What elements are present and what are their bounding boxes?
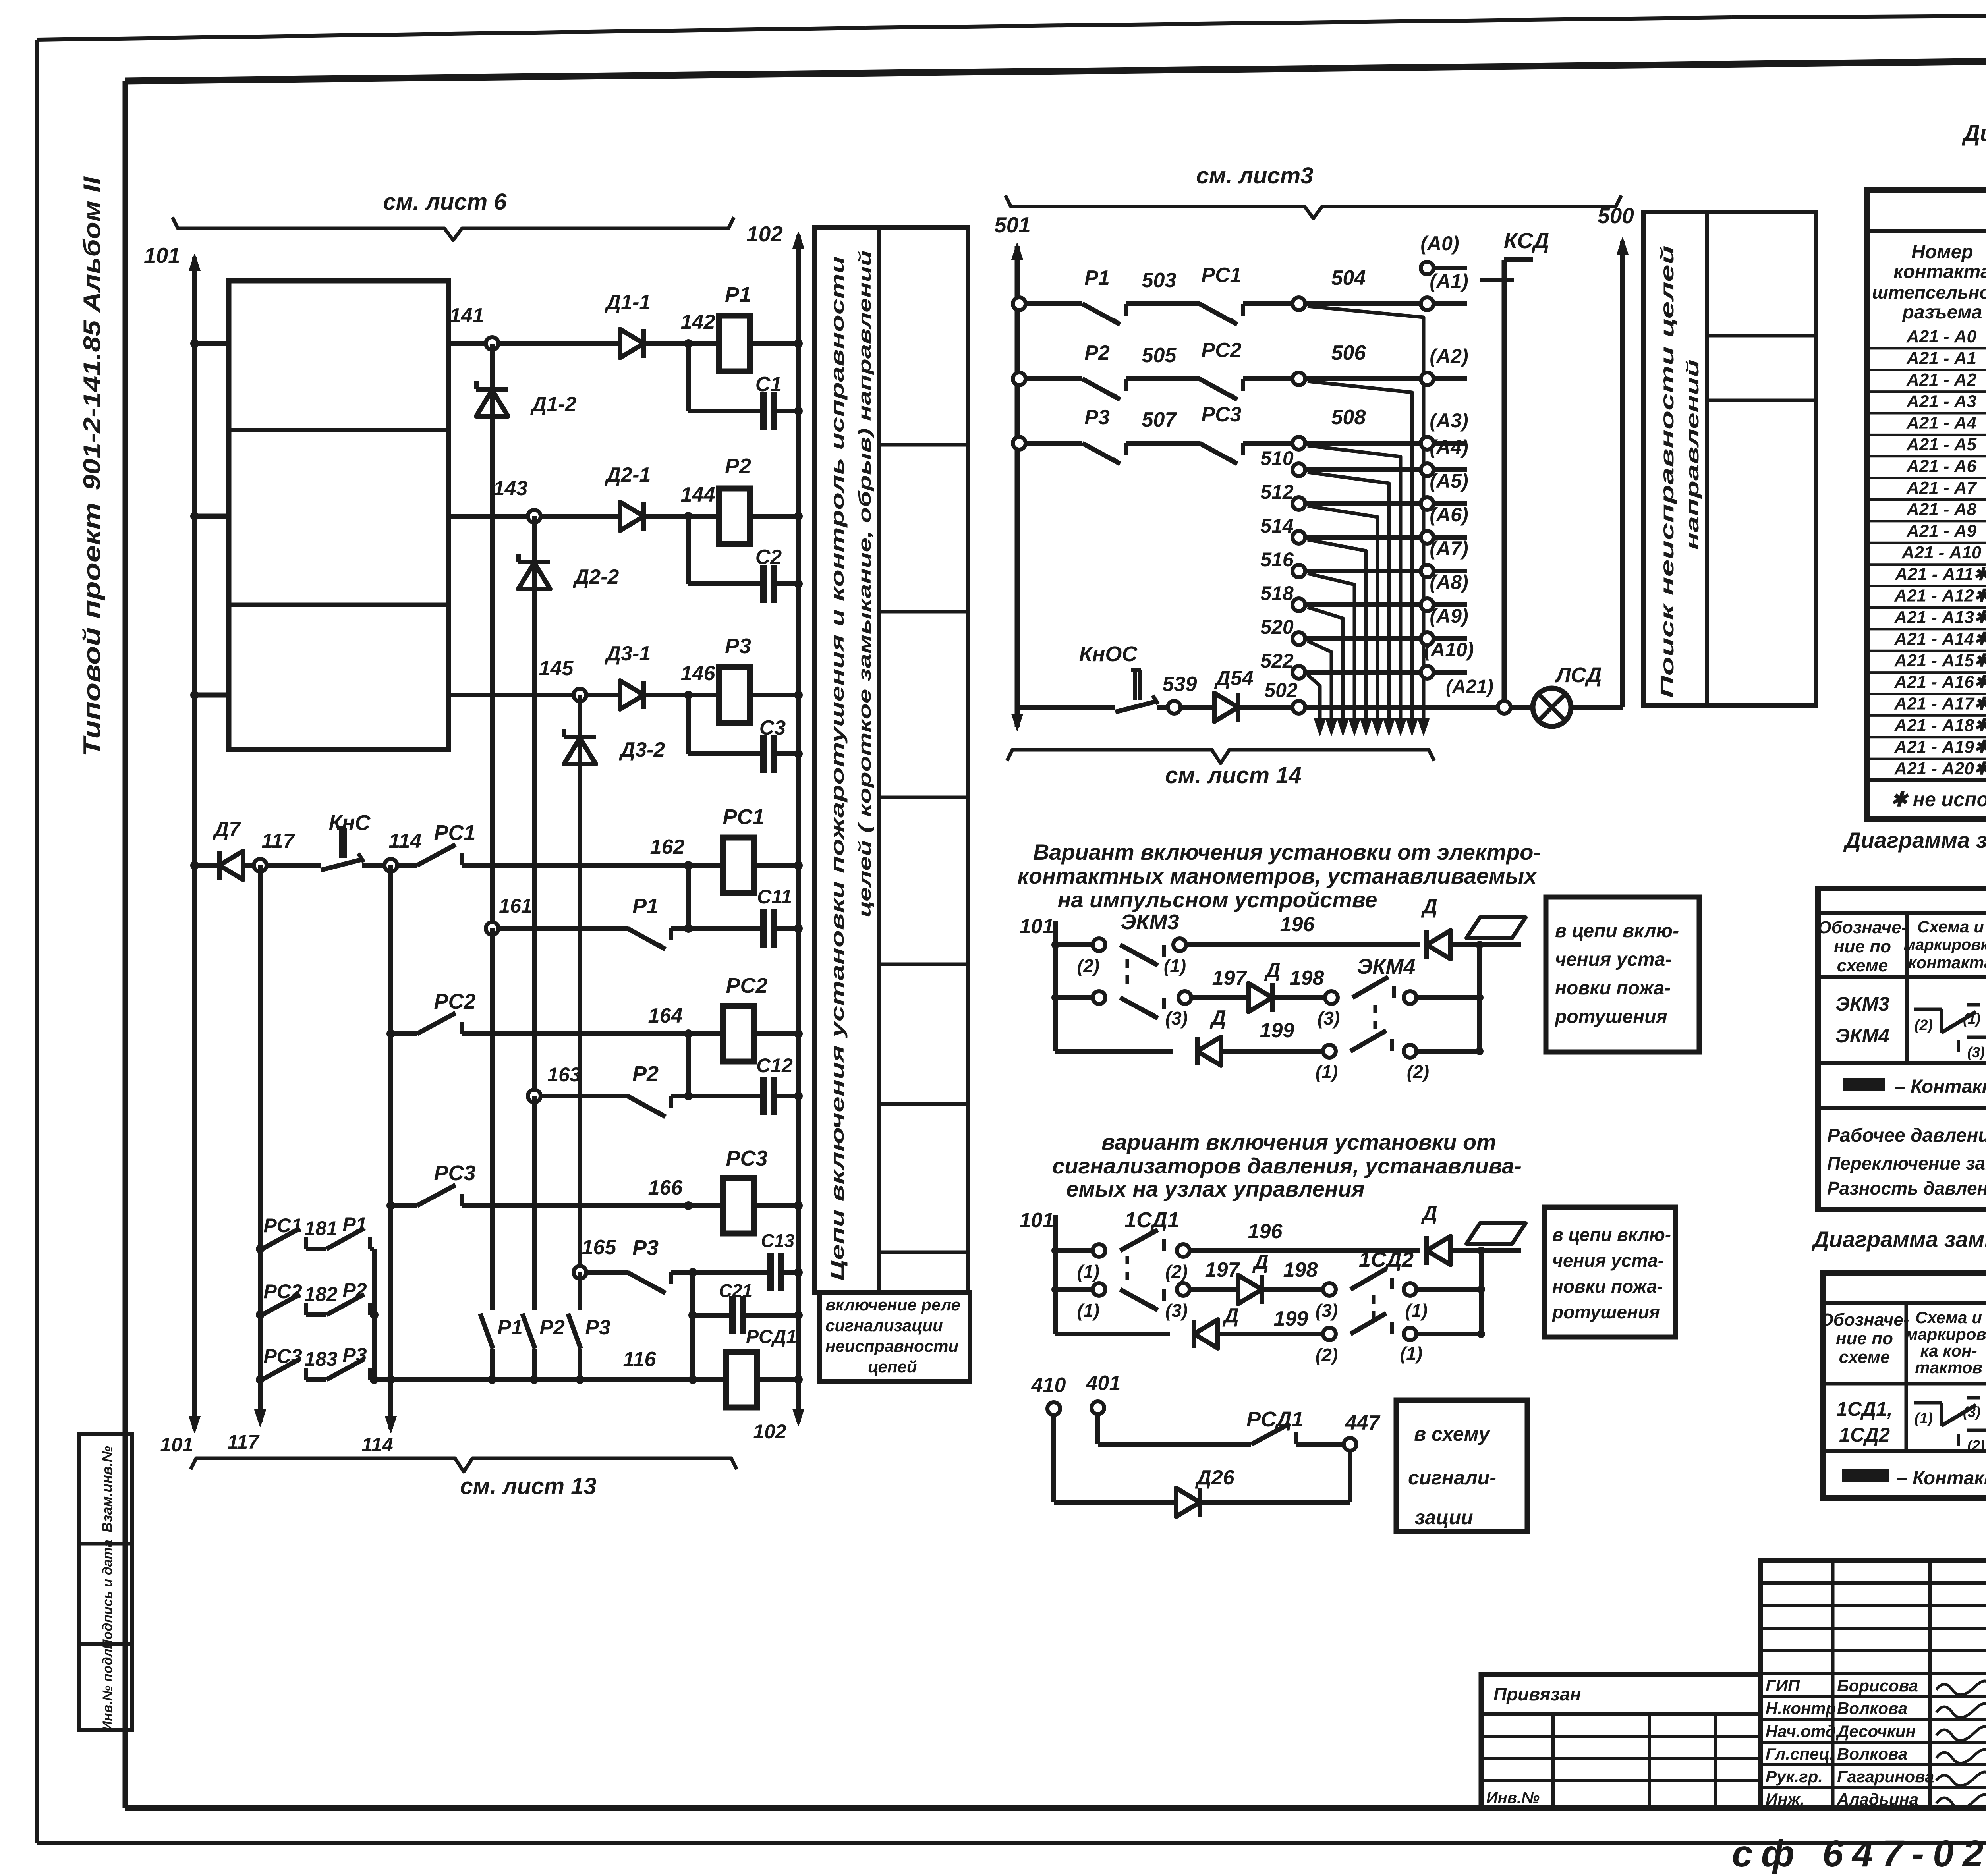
node 447 <box>1344 1438 1356 1451</box>
svg-text:А21 - А15✱: А21 - А15✱ <box>1894 651 1986 670</box>
annotation box EKM <box>1546 897 1699 1052</box>
wire SDU right vertical <box>1479 1251 1484 1334</box>
svg-text:Обозначе-: Обозначе- <box>1818 918 1907 937</box>
svg-text:Д3-2: Д3-2 <box>619 738 665 761</box>
annotation box signal <box>1396 1400 1527 1531</box>
svg-text:А21 - А8: А21 - А8 <box>1906 500 1977 519</box>
node 162 <box>684 861 693 870</box>
svg-text:Взам.инв.№: Взам.инв.№ <box>99 1446 115 1532</box>
svg-text:Рабочее давление в импульсном: Рабочее давление в импульсном устройстве… <box>1827 1125 1986 1146</box>
svg-text:схеме: схеме <box>1839 1347 1890 1367</box>
svg-text:сигнали-: сигнали- <box>1408 1467 1496 1489</box>
wire drop to bundle row 2 <box>1308 381 1412 731</box>
svg-text:А21 - А17✱: А21 - А17✱ <box>1894 694 1986 714</box>
node (А1) <box>1421 297 1433 310</box>
node (А6) <box>1421 531 1433 544</box>
svg-text:114: 114 <box>361 1434 393 1456</box>
svg-text:518: 518 <box>1260 582 1294 604</box>
drawing frame <box>125 56 1986 81</box>
svg-text:ние по: ние по <box>1834 937 1891 956</box>
svg-text:Р2: Р2 <box>342 1279 367 1301</box>
contact symbol SDU <box>1914 1401 1942 1405</box>
node 539 <box>1168 701 1180 714</box>
svg-text:схеме: схеме <box>1837 956 1888 975</box>
relay P2 <box>719 488 750 544</box>
capacitor C21 <box>729 1296 736 1334</box>
function column (search of faults) <box>1644 212 1816 706</box>
svg-text:198: 198 <box>1283 1258 1318 1282</box>
svg-text:маркировка: маркировка <box>1903 936 1986 953</box>
EKM data row <box>1818 1061 1986 1065</box>
wire row 504 (Р1/РС1) <box>1013 297 1026 310</box>
svg-text:901-2-141.85 Альбом II: 901-2-141.85 Альбом II <box>79 176 105 490</box>
node 504 <box>1292 297 1305 310</box>
wire SDU rail 2 <box>1051 1285 1059 1293</box>
svg-text:Р1: Р1 <box>1084 266 1110 290</box>
wire rail B (143-144) <box>448 514 620 519</box>
svg-text:(3): (3) <box>1316 1300 1338 1321</box>
contact Р2 vertical to rail 116 <box>532 1096 537 1310</box>
svg-text:1СД2: 1СД2 <box>1359 1248 1414 1272</box>
svg-text:Р3: Р3 <box>342 1344 367 1366</box>
svg-text:(3): (3) <box>1165 1300 1188 1321</box>
node 142 <box>684 339 693 348</box>
push button KnS <box>337 826 346 830</box>
svg-text:506: 506 <box>1331 342 1366 365</box>
svg-text:Переключение замыкающего кон: Переключение замыкающего контакта при да… <box>1827 1153 1986 1173</box>
svg-text:Номер: Номер <box>1911 241 1973 262</box>
wire SDU rail 1 <box>1055 1248 1093 1253</box>
svg-text:447: 447 <box>1345 1411 1381 1434</box>
svg-text:199: 199 <box>1274 1307 1308 1330</box>
wire rail F <box>391 1031 417 1036</box>
svg-text:(А0): (А0) <box>1420 232 1459 255</box>
svg-text:(1): (1) <box>1400 1343 1422 1364</box>
svg-text:цепей: цепей <box>868 1357 917 1376</box>
wire EKM rail 2 <box>1051 994 1059 1002</box>
svg-text:117: 117 <box>262 830 296 853</box>
svg-text:Борисова: Борисова <box>1837 1676 1918 1695</box>
svg-text:196: 196 <box>1280 913 1315 936</box>
wire stub bus101 to box (rail B) <box>195 514 229 519</box>
EKM legend row <box>1818 1106 1986 1110</box>
svg-text:514: 514 <box>1260 515 1293 537</box>
svg-text:Д3-1: Д3-1 <box>605 642 651 665</box>
wire row 514 <box>1292 531 1305 544</box>
svg-text:Вариант включения установки от: Вариант включения установки от электро- <box>1033 840 1541 865</box>
svg-text:Привязан: Привязан <box>1493 1684 1581 1704</box>
wire D2-2 vertical (143 to 163) <box>532 516 537 1096</box>
brace see sheet 14 <box>1007 750 1434 763</box>
svg-text:Н.контр: Н.контр <box>1766 1699 1836 1718</box>
svg-text:РС1: РС1 <box>723 805 764 829</box>
relay P3 <box>719 667 750 723</box>
svg-text:чения уста-: чения уста- <box>1555 949 1671 970</box>
svg-text:см. лист3: см. лист3 <box>1196 163 1314 189</box>
svg-text:Поиск неисправности целей: Поиск неисправности целей <box>1657 245 1677 698</box>
svg-text:144: 144 <box>681 483 715 506</box>
capacitor C1 <box>760 392 767 430</box>
svg-text:Инв.№: Инв.№ <box>1486 1789 1540 1807</box>
wire rail E (161 - C11) <box>492 926 628 931</box>
wire rail K (116) <box>374 1377 726 1382</box>
svg-text:РС2: РС2 <box>434 990 475 1013</box>
svg-text:вариант включения установки: вариант включения установки от <box>1101 1129 1496 1154</box>
wire 114 vertical down <box>388 865 393 1429</box>
svg-text:Гл.спец.: Гл.спец. <box>1766 1745 1834 1763</box>
SDU legend row <box>1842 1469 1889 1482</box>
wire rail G (163 - C12) <box>534 1094 628 1098</box>
svg-text:(А21): (А21) <box>1446 676 1493 697</box>
svg-text:101: 101 <box>160 1434 193 1456</box>
svg-text:Д2-2: Д2-2 <box>573 566 619 589</box>
wire drop to bundle row 9 <box>1308 641 1331 731</box>
svg-text:197: 197 <box>1212 967 1248 990</box>
table SDU frame <box>1823 1273 1986 1498</box>
svg-text:Инж.: Инж. <box>1766 1790 1804 1808</box>
title block: attachment box <box>1481 1675 1760 1808</box>
wire stub bus101 to box (rail A) <box>195 341 229 346</box>
wire bus (SDU variant) <box>1053 1215 1058 1334</box>
svg-text:Обозначе-: Обозначе- <box>1820 1310 1909 1330</box>
wire drop to bundle row 3 <box>1308 446 1401 731</box>
svg-text:А21 - А14✱: А21 - А14✱ <box>1894 629 1986 648</box>
svg-text:141: 141 <box>450 304 484 327</box>
svg-text:А21 - А16✱: А21 - А16✱ <box>1894 672 1986 692</box>
svg-text:Д54: Д54 <box>1214 667 1253 690</box>
svg-text:Волкова: Волкова <box>1837 1745 1907 1763</box>
node (А9) <box>1421 632 1433 645</box>
svg-text:Д: Д <box>1222 1304 1239 1327</box>
node 401 <box>1092 1401 1104 1414</box>
svg-text:Десочкин: Десочкин <box>1836 1722 1916 1741</box>
svg-text:(2): (2) <box>1915 1017 1933 1034</box>
svg-text:А21 - А5: А21 - А5 <box>1906 435 1977 454</box>
svg-text:(2): (2) <box>1967 1437 1985 1453</box>
lamp LSD <box>1533 688 1571 726</box>
svg-text:зации: зации <box>1415 1506 1473 1529</box>
svg-text:199: 199 <box>1260 1019 1294 1042</box>
svg-text:(А9): (А9) <box>1430 605 1468 627</box>
svg-text:Д26: Д26 <box>1195 1466 1234 1489</box>
svg-text:(3): (3) <box>1963 1404 1980 1420</box>
svg-text:(А6): (А6) <box>1430 504 1468 526</box>
contact chain row РС1 181 Р1 <box>256 1245 265 1253</box>
svg-text:1СД1,: 1СД1, <box>1836 1398 1893 1420</box>
node (А10) <box>1421 666 1433 679</box>
svg-text:С1: С1 <box>755 373 782 396</box>
svg-text:(А8): (А8) <box>1430 571 1468 593</box>
svg-text:(1): (1) <box>1077 1261 1099 1282</box>
svg-text:(1): (1) <box>1963 1011 1980 1027</box>
svg-text:(2): (2) <box>1077 955 1099 976</box>
wire chain right vertical <box>372 1249 377 1380</box>
svg-text:А21 - А20✱: А21 - А20✱ <box>1894 759 1986 778</box>
svg-text:161: 161 <box>499 895 532 917</box>
svg-text:(А3): (А3) <box>1430 409 1468 432</box>
wire capacitor C2 branch <box>686 516 691 584</box>
svg-text:1СД2: 1СД2 <box>1839 1424 1890 1446</box>
contact P3 on rail I <box>628 1272 665 1293</box>
node 141 <box>486 337 498 350</box>
contact 1SD2 <box>1350 1269 1386 1289</box>
svg-text:(А1): (А1) <box>1430 270 1468 292</box>
svg-text:РС1: РС1 <box>263 1214 302 1237</box>
svg-text:(А5): (А5) <box>1430 470 1468 492</box>
svg-text:РСД1: РСД1 <box>1246 1407 1304 1431</box>
svg-text:включение реле: включение реле <box>825 1295 960 1314</box>
node 145 <box>574 689 586 701</box>
svg-text:А21 - А10: А21 - А10 <box>1901 543 1982 562</box>
svg-text:Рук.гр.: Рук.гр. <box>1766 1767 1823 1786</box>
svg-text:102: 102 <box>753 1421 786 1443</box>
svg-text:штепсельного: штепсельного <box>1872 282 1986 303</box>
diode D (rail2 SDU) <box>1238 1275 1262 1304</box>
contact symbol EKM <box>1914 1008 1942 1011</box>
svg-text:ЭКМ4: ЭКМ4 <box>1835 1025 1889 1047</box>
svg-text:539: 539 <box>1163 673 1197 696</box>
svg-text:Инв.№ подл.: Инв.№ подл. <box>100 1645 115 1731</box>
svg-text:Р2: Р2 <box>539 1316 565 1339</box>
svg-text:А21 - А9: А21 - А9 <box>1906 521 1977 541</box>
relay PC2 <box>723 1006 754 1062</box>
contact chain row РС2 182 Р2 <box>256 1310 265 1319</box>
svg-text:А21 - А18✱: А21 - А18✱ <box>1894 716 1986 735</box>
wire drop to bundle row 4 <box>1308 472 1389 731</box>
svg-text:ка кон-: ка кон- <box>1920 1341 1977 1360</box>
wire bottom rail (502/A21) <box>1017 705 1115 710</box>
diode D2-1 <box>620 502 644 531</box>
brace see sheet 6 <box>172 217 734 240</box>
svg-text:см. лист 14: см. лист 14 <box>1165 762 1301 788</box>
svg-text:503: 503 <box>1142 269 1177 292</box>
svg-text:114: 114 <box>389 830 422 853</box>
svg-text:Р1: Р1 <box>342 1213 367 1235</box>
function column (left schematic) <box>814 228 968 1292</box>
wire drop to bundle row 1 <box>1308 306 1424 731</box>
svg-text:в цепи вклю-: в цепи вклю- <box>1552 1224 1671 1245</box>
brace see sheet 3 <box>1005 195 1621 218</box>
svg-text:145: 145 <box>539 657 574 680</box>
svg-text:С21: С21 <box>719 1280 752 1301</box>
node 114 <box>384 859 397 872</box>
contact PC1 on rail D <box>417 845 456 865</box>
svg-text:146: 146 <box>681 662 716 685</box>
svg-text:196: 196 <box>1248 1220 1283 1243</box>
svg-text:Р3: Р3 <box>632 1236 659 1260</box>
node (А7) <box>1421 565 1433 577</box>
node 166 <box>684 1201 693 1210</box>
diode D54 <box>1214 693 1238 722</box>
wire 164 down to rail G <box>686 1034 691 1096</box>
wire capacitor C3 branch <box>686 695 691 754</box>
wire 117 vertical down <box>258 865 263 1422</box>
svg-text:ЛСД: ЛСД <box>1554 663 1602 687</box>
svg-text:502: 502 <box>1264 679 1298 701</box>
svg-text:тактов: тактов <box>1915 1358 1982 1377</box>
node (А8) <box>1421 598 1433 611</box>
svg-text:Диаграмма замыкания контактов: Диаграмма замыкания контактов сигнализат… <box>1811 1227 1986 1252</box>
svg-text:РС1: РС1 <box>434 821 475 845</box>
relay P1 <box>719 316 750 371</box>
node 502 <box>1292 701 1305 714</box>
svg-text:165: 165 <box>582 1236 617 1259</box>
svg-text:С2: С2 <box>755 546 782 569</box>
svg-text:РС3: РС3 <box>1201 403 1241 426</box>
svg-text:целей ( короткое замыкание, об: целей ( короткое замыкание, обрыв) напра… <box>855 250 875 917</box>
svg-text:522: 522 <box>1260 650 1294 672</box>
svg-text:А21 - А19✱: А21 - А19✱ <box>1894 737 1986 757</box>
svg-text:Нач.отд.: Нач.отд. <box>1766 1722 1840 1741</box>
relay PCD1 <box>726 1352 757 1407</box>
svg-text:197: 197 <box>1205 1258 1240 1282</box>
wire rail D <box>195 863 219 868</box>
node 146 <box>684 691 693 699</box>
wire row 520 <box>1292 632 1305 645</box>
svg-text:Подпись и дата: Подпись и дата <box>100 1540 115 1649</box>
svg-text:Д: Д <box>1252 1251 1269 1274</box>
svg-text:(1): (1) <box>1164 955 1186 976</box>
wire rail C (145-146) <box>448 693 620 697</box>
diode D1-1 <box>620 329 644 358</box>
svg-text:Р2: Р2 <box>725 454 751 478</box>
node 165 <box>574 1266 586 1279</box>
wire junction column down (rail I to rail K) <box>690 1272 695 1380</box>
diode D3-1 <box>620 681 644 709</box>
svg-text:РС2: РС2 <box>726 974 767 998</box>
svg-text:новки пожа-: новки пожа- <box>1555 978 1671 999</box>
wire row 506 (Р2/РС2) <box>1013 372 1026 385</box>
svg-text:Д: Д <box>1421 1202 1437 1225</box>
svg-text:182: 182 <box>304 1283 338 1305</box>
wire drop to bundle row 10 <box>1308 675 1320 731</box>
svg-text:198: 198 <box>1290 967 1324 990</box>
svg-text:РС3: РС3 <box>726 1146 767 1170</box>
svg-text:164: 164 <box>648 1004 683 1027</box>
svg-text:Д7: Д7 <box>213 818 241 841</box>
relay PC1 <box>723 838 754 893</box>
svg-text:504: 504 <box>1331 266 1366 290</box>
sheet edge lines <box>35 40 39 1843</box>
wire EKM rail 1 <box>1055 942 1093 947</box>
svg-text:(3): (3) <box>1967 1044 1985 1060</box>
svg-text:С3: С3 <box>759 716 786 739</box>
diode D7 <box>219 851 243 880</box>
svg-text:Р2: Р2 <box>1084 342 1110 365</box>
annotation box SDU <box>1544 1207 1675 1337</box>
brace see sheet 13 <box>191 1458 737 1472</box>
capacitor C12 <box>760 1077 767 1115</box>
table PTI-M frame <box>1867 190 1986 819</box>
contact PC2 on rail F <box>417 1013 456 1034</box>
svg-text:Р1: Р1 <box>632 894 659 918</box>
svg-text:183: 183 <box>304 1348 338 1370</box>
svg-text:РС2: РС2 <box>263 1280 302 1303</box>
node 144 <box>684 512 693 521</box>
contact PC3 on rail H <box>417 1185 456 1206</box>
svg-text:контактных манометров, устанав: контактных манометров, устанавливаемых <box>1017 863 1538 888</box>
svg-text:чения уста-: чения уста- <box>1552 1250 1664 1271</box>
contact EKM4 <box>1352 977 1388 998</box>
svg-text:(2): (2) <box>1316 1345 1338 1365</box>
svg-text:разъема: разъема <box>1902 302 1982 323</box>
svg-text:контакта: контакта <box>1908 953 1986 972</box>
svg-text:Волкова: Волкова <box>1837 1699 1907 1718</box>
svg-text:✱ не используется: ✱ не используется <box>1891 788 1986 811</box>
svg-text:РС1: РС1 <box>1201 264 1241 287</box>
distribution box <box>229 281 448 749</box>
svg-text:неисправности: неисправности <box>825 1337 958 1355</box>
wire bus 501 <box>1015 246 1020 707</box>
svg-text:см. лист 6: см. лист 6 <box>383 189 507 215</box>
capacitor C3 <box>760 735 767 773</box>
svg-text:РС2: РС2 <box>1201 339 1241 362</box>
svg-text:162: 162 <box>650 836 685 859</box>
svg-text:ГИП: ГИП <box>1766 1676 1800 1695</box>
svg-text:РСД1: РСД1 <box>746 1326 797 1347</box>
wire row 518 <box>1292 598 1305 611</box>
svg-text:РС3: РС3 <box>434 1161 475 1185</box>
wire bus 101 <box>192 257 197 1429</box>
svg-text:Р1: Р1 <box>725 283 751 307</box>
svg-text:101: 101 <box>1020 1209 1054 1232</box>
svg-text:1СД1: 1СД1 <box>1124 1208 1179 1232</box>
flag pressure (EKM) <box>1466 917 1526 938</box>
node 410 <box>1047 1402 1060 1415</box>
svg-text:Р3: Р3 <box>1084 406 1110 429</box>
SDU data row <box>1823 1449 1986 1453</box>
svg-text:А21 - А13✱: А21 - А13✱ <box>1894 608 1986 627</box>
svg-text:(А7): (А7) <box>1430 537 1468 560</box>
svg-text:Цепи включения установки: Цепи включения установки пожаротушения и… <box>827 256 848 1281</box>
svg-text:Р2: Р2 <box>632 1062 659 1086</box>
contact chain row РС3 183 Р3 <box>256 1375 265 1384</box>
node (A0) <box>1421 262 1433 274</box>
wire bus 500 <box>1620 241 1625 707</box>
svg-text:505: 505 <box>1142 344 1177 367</box>
svg-text:116: 116 <box>623 1348 657 1371</box>
wire rail A (141-142) <box>448 341 620 346</box>
svg-text:(А4): (А4) <box>1430 436 1468 458</box>
svg-text:Диаграмма замыкания: Диаграмма замыкания контактов <box>1961 120 1986 146</box>
svg-text:Д1-2: Д1-2 <box>530 393 577 416</box>
node (А5) <box>1421 497 1433 510</box>
svg-text:емых на узлах управления: емых на узлах управления <box>1066 1176 1365 1201</box>
wire row 510 <box>1292 463 1305 476</box>
zener D1-2 <box>476 387 508 392</box>
svg-text:Гагаринова: Гагаринова <box>1837 1767 1934 1786</box>
svg-text:в цепи вклю-: в цепи вклю- <box>1555 921 1679 942</box>
svg-text:сигнализаторов давления, уст: сигнализаторов давления, устанавлива- <box>1052 1153 1522 1178</box>
zener D3-2 <box>564 735 596 739</box>
svg-text:см. лист 13: см. лист 13 <box>460 1473 596 1499</box>
diode D (rail2 EKM) <box>1248 983 1272 1012</box>
node 143 <box>528 510 541 523</box>
contact RSD1 <box>1251 1424 1290 1444</box>
diode D (rail1 EKM) <box>1427 930 1451 959</box>
svg-text:– Контакт замкнут: – Контакт замкнут <box>1895 1076 1986 1097</box>
svg-text:(1): (1) <box>1405 1300 1428 1321</box>
svg-text:516: 516 <box>1260 548 1294 571</box>
svg-text:117: 117 <box>227 1431 260 1453</box>
switch KSD <box>1502 260 1507 701</box>
wire drop to bundle row 7 <box>1308 573 1354 731</box>
contact P1 on rail E <box>628 928 665 949</box>
wire 447 down / 410 down / diode D26 rail <box>1348 1451 1352 1502</box>
svg-text:ротушения: ротушения <box>1554 1006 1667 1027</box>
svg-text:508: 508 <box>1331 406 1366 429</box>
wire capacitor C1 branch <box>686 344 691 411</box>
